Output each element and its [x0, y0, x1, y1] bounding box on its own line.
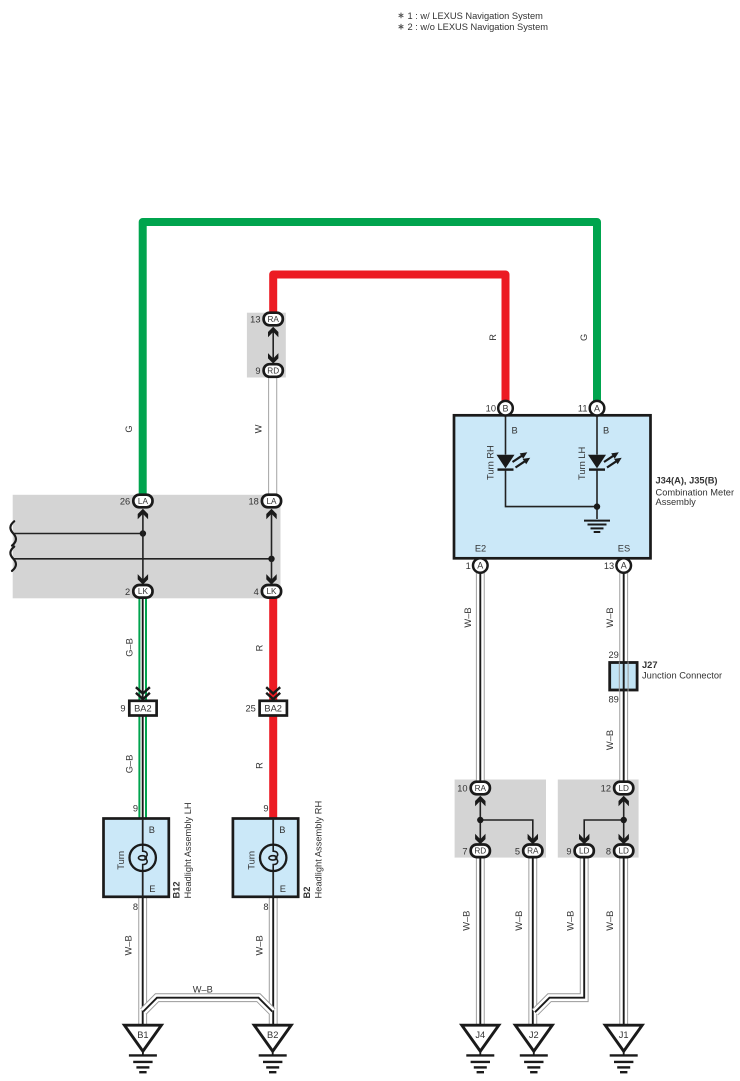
wire W-B: meter pin 1 E2 down to 10RA: [476, 573, 485, 781]
svg-text:Headlight Assembly RH: Headlight Assembly RH: [313, 801, 323, 899]
wire W-B: 9LD down, jog left into ground J2: [535, 856, 584, 1012]
svg-text:W–B: W–B: [605, 911, 615, 931]
svg-text:4: 4: [254, 587, 259, 597]
ground J4: [462, 1025, 499, 1072]
svg-text:W–B: W–B: [193, 985, 213, 995]
junction connector J27 box: [610, 663, 637, 691]
svg-text:A: A: [477, 561, 483, 571]
svg-text:B12: B12: [171, 881, 181, 898]
ground J1: [605, 1025, 642, 1072]
svg-text:J2: J2: [529, 1030, 539, 1040]
connector BA2 pin 25: [260, 701, 287, 716]
svg-text:LD: LD: [618, 784, 629, 793]
svg-text:LA: LA: [138, 497, 149, 506]
svg-text:R: R: [254, 644, 264, 651]
svg-text:25: 25: [245, 704, 255, 714]
connector band 12LD/9LD/8LD: [558, 780, 639, 858]
arrow down over 2LK: [138, 574, 148, 585]
meter internal line from pin 10B: [505, 415, 507, 454]
meter label: [656, 475, 735, 507]
svg-text:B2: B2: [267, 1030, 278, 1040]
svg-text:W–B: W–B: [255, 935, 265, 955]
svg-text:13: 13: [250, 315, 260, 325]
arrow down over 4LK: [266, 574, 276, 585]
wire W-B: headlight RH to ground B2: [269, 896, 278, 1026]
svg-text:Turn: Turn: [116, 851, 126, 870]
svg-text:E: E: [280, 884, 286, 894]
svg-text:5: 5: [515, 846, 520, 856]
svg-text:W–B: W–B: [462, 911, 472, 931]
svg-text:1 : w/ LEXUS Navigation System: 1 : w/ LEXUS Navigation System: [408, 11, 544, 21]
svg-text:RD: RD: [474, 847, 486, 856]
svg-text:10: 10: [457, 784, 467, 794]
svg-text:B1: B1: [137, 1030, 148, 1040]
svg-text:RA: RA: [527, 847, 539, 856]
svg-text:10: 10: [486, 404, 496, 414]
svg-text:2 : w/o LEXUS Navigation Syste: 2 : w/o LEXUS Navigation System: [408, 22, 549, 32]
meter internal line from pin 11A: [596, 415, 598, 454]
arrow up under 13RA: [268, 327, 278, 338]
svg-text:B: B: [279, 825, 285, 835]
svg-text:26: 26: [120, 497, 130, 507]
J27 label: [642, 660, 722, 681]
svg-text:8: 8: [263, 902, 268, 912]
svg-text:Assembly: Assembly: [656, 497, 697, 507]
oval terminal 10 RA: [471, 782, 490, 795]
svg-text:12: 12: [601, 784, 611, 794]
arrow up under 12LD: [619, 796, 629, 807]
svg-text:7: 7: [462, 846, 467, 856]
oval terminal 4 LK: [262, 585, 281, 598]
arrow down over 9LD: [579, 834, 589, 845]
svg-text:9: 9: [566, 846, 571, 856]
svg-text:LK: LK: [266, 587, 277, 596]
wire W-B: 8LD down to ground J1: [619, 856, 628, 1026]
svg-text:W–B: W–B: [605, 730, 615, 750]
lamp feed line top: [142, 819, 144, 846]
arrow down over 5RA: [528, 834, 538, 845]
pin circle 10 B: [498, 401, 513, 416]
combination meter box J34/J35: [454, 415, 651, 558]
svg-text:W–B: W–B: [605, 607, 615, 627]
wire W-B: headlight LH to ground B1: [138, 896, 147, 1026]
svg-text:LK: LK: [138, 587, 149, 596]
oval terminal 9 RD: [264, 364, 283, 377]
lamp feed line bottom: [272, 871, 274, 897]
svg-text:29: 29: [608, 650, 618, 660]
svg-text:W–B: W–B: [514, 911, 524, 931]
svg-text:2: 2: [125, 587, 130, 597]
svg-text:G–B: G–B: [124, 755, 134, 774]
continuation squiggle on line 1: [10, 521, 16, 545]
pin circle 13 A: [616, 558, 631, 573]
meter internal line LED RH to common: [506, 470, 598, 507]
svg-text:Turn: Turn: [246, 851, 256, 870]
wire W-B: meter pin 13 ES down through J27 to 12LD: [619, 573, 628, 781]
ground J2: [515, 1025, 552, 1072]
bus line 1 in left band: [14, 533, 143, 535]
headlight assembly RH box B2: [233, 819, 298, 897]
svg-text:E: E: [149, 884, 155, 894]
wire W-B: 5RA down to ground J2: [528, 856, 537, 1026]
pin circle 11 A: [590, 401, 605, 416]
svg-text:J4: J4: [475, 1030, 485, 1040]
arrow up under 18LA: [266, 509, 276, 520]
svg-text:W–B: W–B: [463, 607, 473, 627]
svg-text:B: B: [502, 403, 508, 413]
svg-text:J27: J27: [642, 660, 658, 670]
band A vertical link 10RA down: [479, 797, 481, 842]
left band vertical link 18LA-4LK: [271, 512, 273, 581]
band A junction dot: [477, 817, 483, 823]
svg-text:89: 89: [608, 694, 618, 704]
svg-text:G: G: [124, 425, 134, 432]
svg-text:LD: LD: [579, 847, 590, 856]
svg-text:G: G: [579, 334, 589, 341]
svg-text:B: B: [149, 825, 155, 835]
svg-text:13: 13: [604, 561, 614, 571]
svg-text:G–B: G–B: [124, 638, 134, 657]
svg-text:B: B: [603, 425, 609, 435]
band A horizontal branch: [480, 820, 533, 842]
left band vertical link 26LA-2LK: [142, 512, 144, 581]
note 2: [399, 24, 404, 30]
svg-text:18: 18: [248, 497, 258, 507]
oval terminal 7 RD: [471, 845, 490, 858]
oval terminal 8 LD: [614, 845, 633, 858]
double chevron above BA2 right: [266, 687, 280, 699]
wire R red: 4LK down to headlight RH: [269, 596, 277, 819]
ground B2: [254, 1025, 291, 1072]
meter internal ground: [584, 521, 610, 532]
svg-text:Junction Connector: Junction Connector: [642, 671, 722, 681]
wire G-B: 2LK down to headlight LH: [138, 596, 147, 819]
svg-text:RA: RA: [268, 315, 280, 324]
svg-text:E2: E2: [475, 544, 486, 554]
svg-text:Combination Meter: Combination Meter: [656, 487, 735, 497]
oval terminal 26 LA: [133, 495, 152, 508]
LED Turn LH: [588, 452, 622, 469]
note 1: [399, 13, 404, 19]
svg-text:W–B: W–B: [566, 911, 576, 931]
arrow down over 9RD: [268, 353, 278, 364]
connector band 10RA/7RD/5RA: [455, 780, 546, 858]
wire W white: 9RD down to 18LA: [268, 375, 277, 496]
svg-text:8: 8: [133, 902, 138, 912]
connector BA2 pin 9: [129, 701, 156, 716]
svg-text:RD: RD: [267, 366, 279, 375]
svg-text:W: W: [254, 424, 264, 433]
svg-text:A: A: [594, 403, 600, 413]
svg-text:R: R: [488, 334, 498, 341]
oval terminal 2 LK: [133, 585, 152, 598]
svg-text:ES: ES: [618, 544, 630, 554]
svg-text:RA: RA: [475, 784, 487, 793]
svg-text:9: 9: [133, 804, 138, 814]
meter internal junction dot: [594, 503, 600, 509]
svg-text:9: 9: [120, 704, 125, 714]
svg-text:Turn RH: Turn RH: [486, 445, 496, 480]
oval terminal 9 LD: [575, 845, 594, 858]
band B horizontal branch: [584, 820, 624, 842]
svg-text:9: 9: [255, 366, 260, 376]
svg-text:LA: LA: [266, 497, 277, 506]
svg-text:9: 9: [263, 804, 268, 814]
instrument panel wire band (left): [13, 495, 281, 599]
center band vertical link RA-RD: [272, 330, 274, 360]
lamp feed line bottom: [142, 871, 144, 897]
headlight assembly LH box B12: [104, 819, 169, 897]
oval terminal 18 LA: [262, 495, 281, 508]
oval terminal 5 RA: [523, 845, 542, 858]
lamp feed line top: [272, 819, 274, 846]
svg-text:BA2: BA2: [134, 704, 152, 714]
band B junction dot: [621, 817, 627, 823]
LED Turn RH: [497, 452, 531, 469]
wire W-B: 7RD down to ground J4: [476, 856, 485, 1026]
arrow down over 8LD: [619, 834, 629, 845]
svg-text:Turn LH: Turn LH: [577, 447, 587, 480]
arrow up under 10RA: [475, 796, 485, 807]
oval terminal 13 RA: [264, 313, 283, 326]
svg-text:W–B: W–B: [123, 935, 133, 955]
pin circle 1 A: [473, 558, 488, 573]
lamp Turn RH bulb: [260, 845, 286, 871]
svg-text:J34(A), J35(B): J34(A), J35(B): [656, 475, 718, 485]
svg-text:BA2: BA2: [264, 704, 282, 714]
meter internal line LED LH to ground: [596, 470, 598, 519]
continuation squiggle on line 2: [10, 547, 16, 571]
arrow up under 26LA: [138, 509, 148, 520]
lamp Turn LH bulb: [130, 845, 156, 871]
ground B1: [124, 1025, 161, 1072]
oval terminal 12 LD: [614, 782, 633, 795]
svg-text:R: R: [254, 762, 264, 769]
svg-text:B: B: [512, 425, 518, 435]
bus line 2 in left band: [14, 558, 272, 560]
svg-text:A: A: [621, 561, 627, 571]
wire R red: 13RA up across to meter pin 10B: [273, 275, 505, 404]
double chevron above BA2 left: [136, 687, 150, 699]
wire G green: 26LA up across to meter pin 11A: [143, 222, 597, 497]
svg-text:1: 1: [466, 561, 471, 571]
svg-text:8: 8: [606, 846, 611, 856]
connector band 13RA/9RD: [247, 313, 286, 378]
svg-text:J1: J1: [619, 1030, 629, 1040]
svg-text:Headlight Assembly LH: Headlight Assembly LH: [183, 802, 193, 898]
wire W-B link between B1 and B2 drops: [143, 998, 272, 1012]
wire core through J27: [619, 662, 628, 692]
svg-text:11: 11: [578, 404, 588, 414]
junction dot on line 2: [268, 556, 274, 562]
svg-text:B2: B2: [302, 887, 312, 899]
band B vertical link 12LD down: [623, 797, 625, 842]
arrow down over 7RD: [475, 834, 485, 845]
junction dot on line 1: [140, 530, 146, 536]
svg-text:LD: LD: [618, 847, 629, 856]
